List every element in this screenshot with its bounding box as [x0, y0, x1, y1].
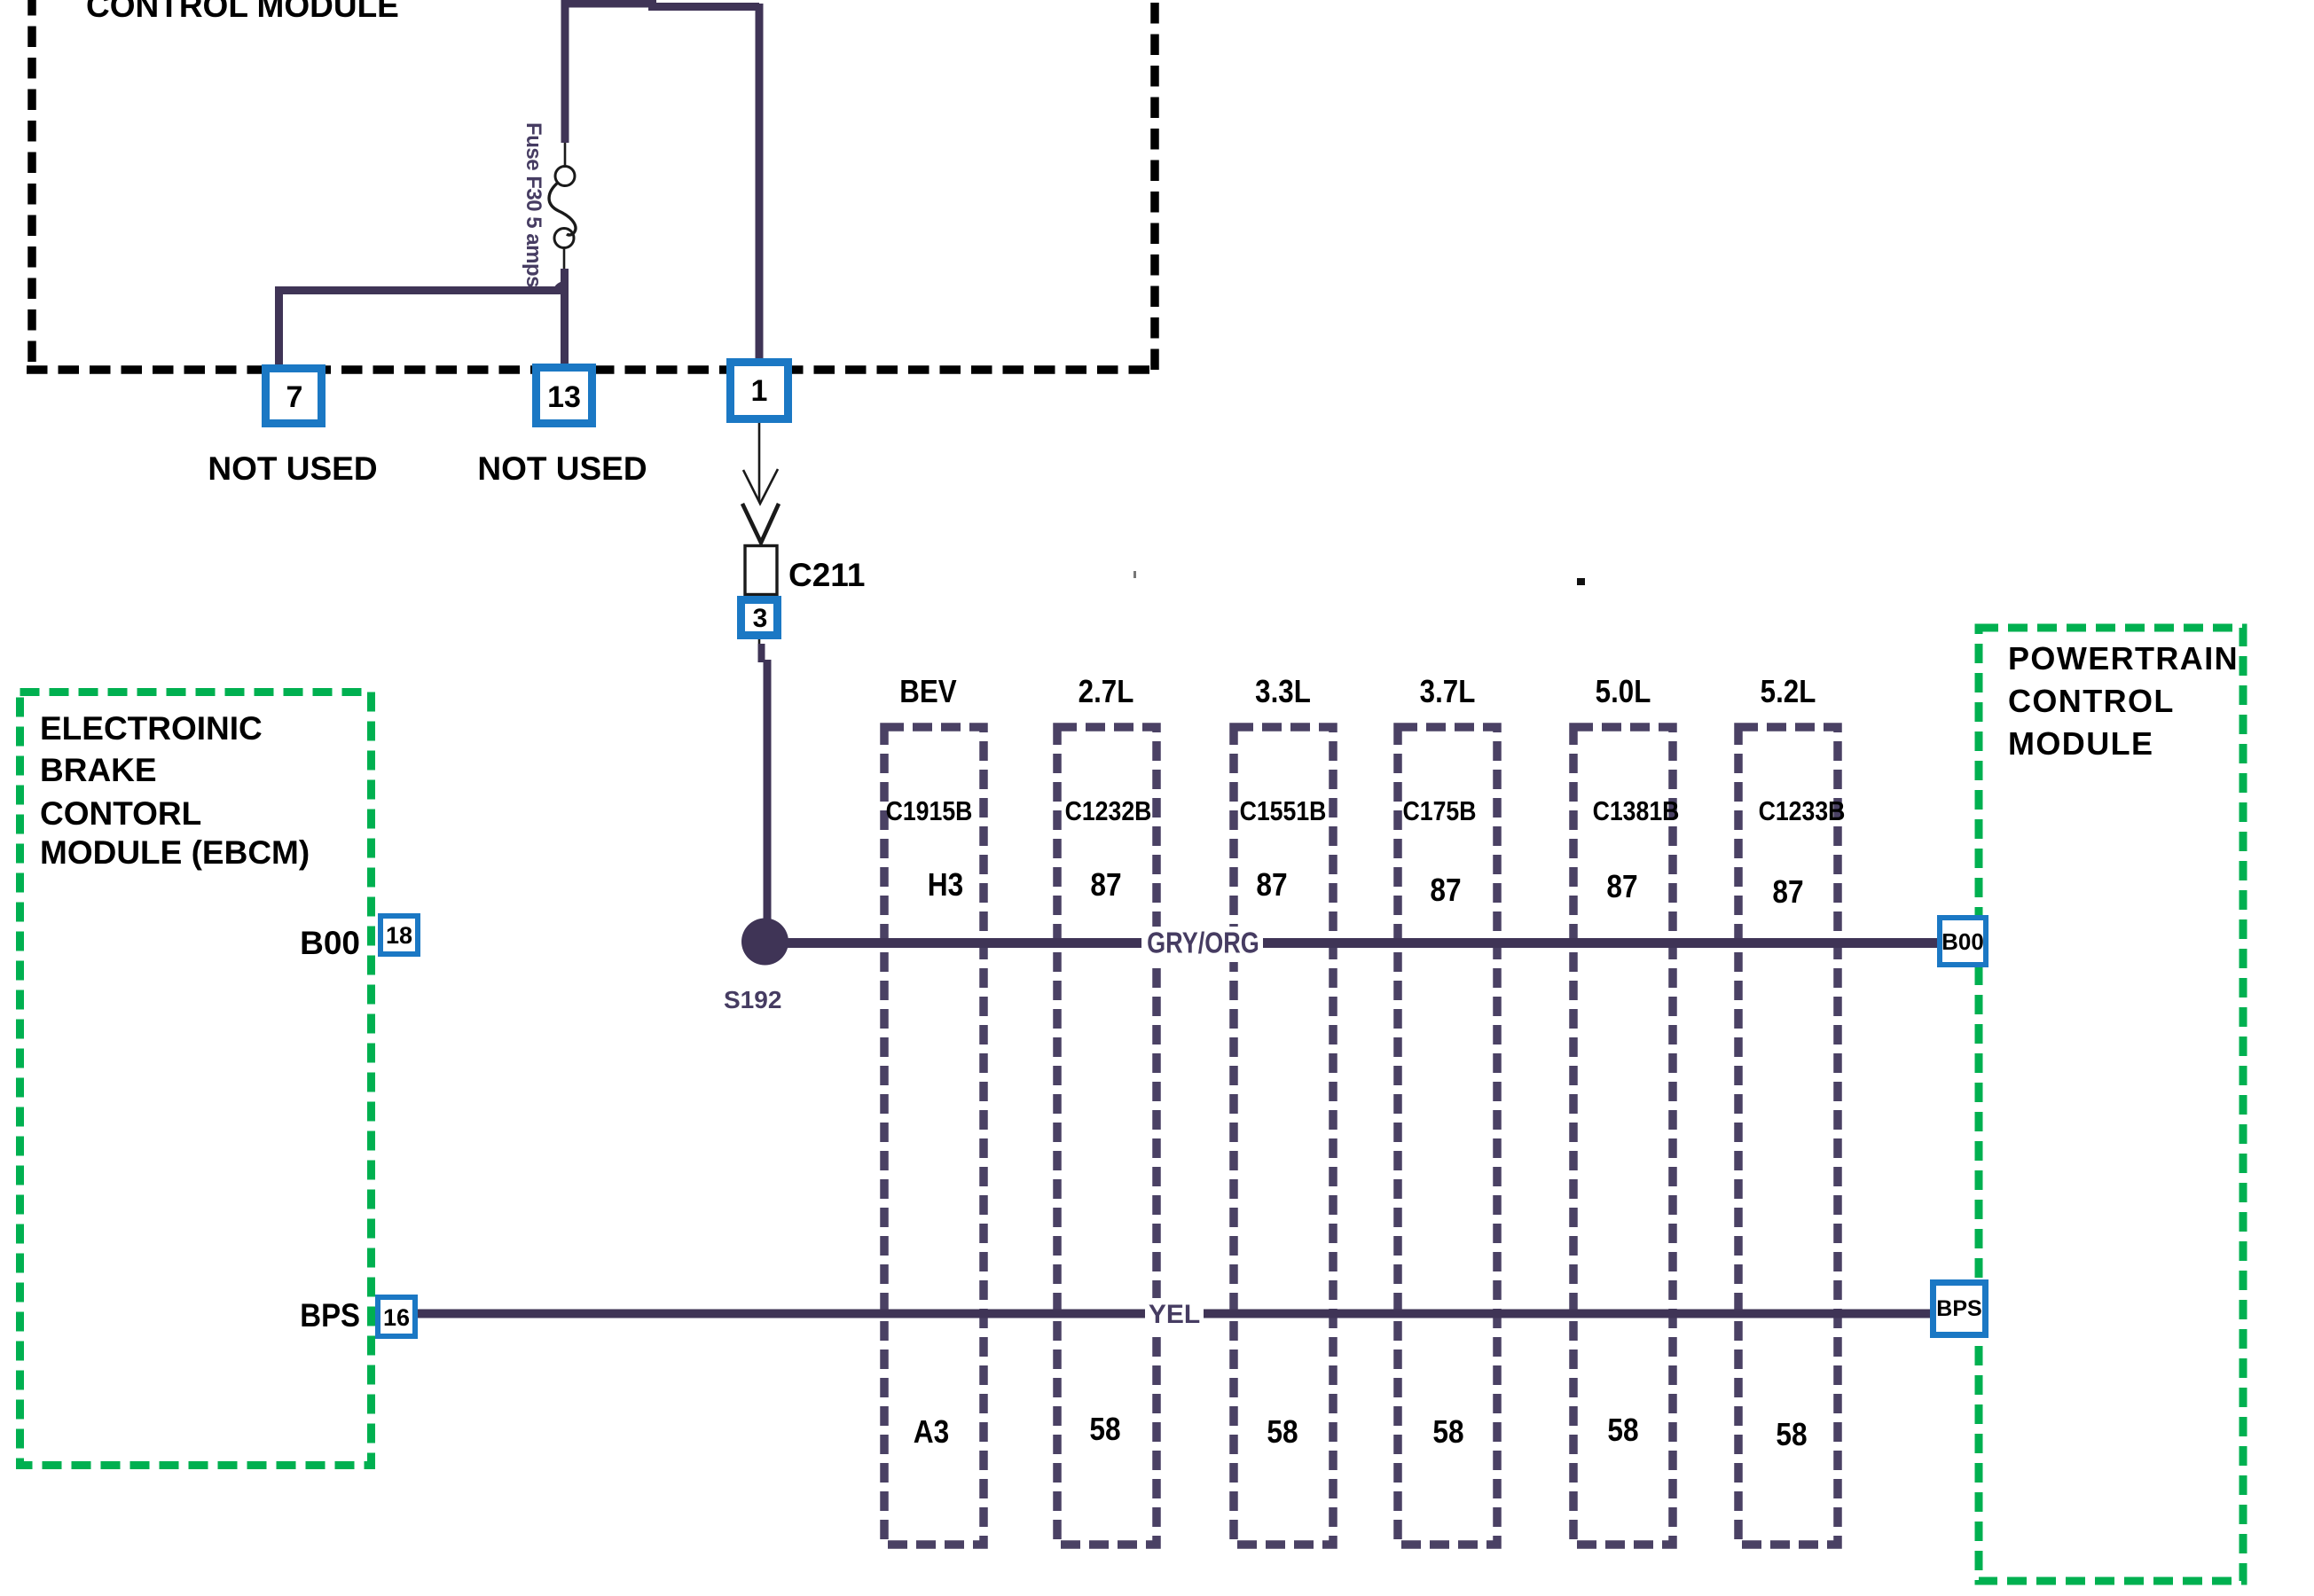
svg-text:58: 58 [1607, 1412, 1638, 1448]
engine variant column 3.7L (dashed) [1398, 727, 1497, 1545]
svg-text:C1915B: C1915B [886, 796, 973, 826]
svg-text:GRY/ORG: GRY/ORG [1147, 927, 1259, 959]
svg-text:ELECTROINIC: ELECTROINIC [40, 710, 263, 747]
svg-text:B00: B00 [1941, 928, 1984, 955]
engine variant column 5.0L (dashed) [1573, 727, 1673, 1545]
wire: YEL left segment [418, 1310, 1145, 1318]
module box: EBCM (green dashed) [20, 692, 372, 1466]
engine variant column 3.3L (dashed) [1234, 727, 1333, 1545]
pin box 7 [266, 369, 322, 424]
svg-text:NOT USED: NOT USED [208, 450, 377, 487]
wire: YEL right segment [1204, 1310, 1932, 1318]
svg-text:58: 58 [1432, 1414, 1463, 1450]
svg-text:CONTORL: CONTORL [40, 795, 201, 832]
svg-text:87: 87 [1256, 867, 1287, 903]
svg-text:POWERTRAIN: POWERTRAIN [2008, 640, 2239, 677]
connector C211 symbol [745, 546, 777, 595]
svg-text:3.3L: 3.3L [1255, 674, 1311, 710]
svg-text:NOT USED: NOT USED [477, 450, 647, 487]
label: ELECTROINIC BRAKE CONTORL MODULE (EBCM) [40, 710, 310, 871]
svg-text:CONTROL MODULE: CONTROL MODULE [86, 0, 399, 24]
stray mark 2 [1577, 578, 1585, 585]
svg-text:S192: S192 [724, 986, 781, 1013]
svg-text:5.0L: 5.0L [1596, 674, 1651, 710]
wire: vertical drop to pin 7 [275, 286, 283, 366]
wire: vertical down to S192 [764, 660, 772, 927]
svg-text:MODULE: MODULE [2008, 725, 2153, 762]
wire: top bus left segment [561, 0, 656, 8]
pin box 16 [378, 1297, 415, 1336]
wire: GRY/ORG right segment [1263, 938, 1939, 948]
svg-text:BPS: BPS [300, 1297, 360, 1334]
svg-text:C211: C211 [788, 557, 865, 593]
fuse F30 5 amps [549, 143, 576, 270]
arrowhead closed [742, 504, 779, 543]
svg-text:5.2L: 5.2L [1761, 674, 1816, 710]
engine variant column 5.2L (dashed) [1738, 727, 1838, 1545]
stray mark 1 [1133, 571, 1136, 578]
wire: top bus right segment [648, 3, 759, 11]
svg-text:58: 58 [1776, 1417, 1807, 1452]
pin box BPS (PCM) [1934, 1283, 1986, 1335]
svg-text:C1381B: C1381B [1593, 796, 1680, 826]
pin box 3 [741, 600, 778, 636]
wire: fuse feed vertical [561, 0, 569, 143]
pin box 1 [731, 363, 788, 419]
svg-text:58: 58 [1089, 1412, 1120, 1447]
svg-text:3: 3 [753, 604, 768, 633]
wire: vertical drop to pin 1 [756, 4, 764, 362]
svg-text:18: 18 [386, 922, 412, 949]
svg-text:A3: A3 [914, 1414, 949, 1450]
svg-text:CONTROL: CONTROL [2008, 683, 2175, 719]
svg-text:C1551B: C1551B [1240, 796, 1327, 826]
svg-text:13: 13 [547, 380, 581, 414]
svg-text:MODULE (EBCM): MODULE (EBCM) [40, 834, 310, 871]
svg-text:YEL: YEL [1149, 1300, 1200, 1329]
svg-text:2.7L: 2.7L [1079, 674, 1134, 710]
engine variant column BEV (dashed) [884, 727, 984, 1545]
wire: vertical drop to pin 13 [561, 293, 569, 366]
label backing GRY/ORG [1142, 927, 1263, 962]
svg-text:C175B: C175B [1403, 796, 1477, 826]
pin box 13 [537, 368, 592, 424]
wire: pin 1 lead to arrow [758, 423, 761, 502]
svg-text:87: 87 [1430, 872, 1461, 908]
module box: PCM (green dashed) [1979, 628, 2243, 1581]
svg-text:16: 16 [383, 1304, 410, 1331]
wire: horizontal run to pin 7 [275, 286, 569, 294]
wire: fuse output vertical [561, 269, 569, 293]
wire: GRY/ORG left segment [780, 938, 1141, 948]
svg-text:87: 87 [1090, 867, 1121, 903]
label backing YEL [1146, 1298, 1203, 1330]
junction hop at fuse output [553, 281, 565, 293]
pin box B00 (PCM) [1940, 918, 1986, 965]
svg-text:87: 87 [1606, 869, 1637, 904]
splice S192 [741, 919, 788, 966]
pin box 18 [380, 916, 418, 954]
svg-text:BEV: BEV [899, 674, 957, 710]
svg-text:BPS: BPS [1936, 1296, 1981, 1321]
wire: jog segment upper [758, 644, 765, 662]
svg-text:H3: H3 [928, 867, 963, 903]
module box: CONTROL MODULE (black dashed) [27, 0, 1155, 370]
svg-text:3.7L: 3.7L [1420, 674, 1476, 710]
svg-text:58: 58 [1267, 1414, 1298, 1450]
engine variant column 2.7L (dashed) [1057, 727, 1157, 1545]
svg-text:BRAKE: BRAKE [40, 752, 157, 788]
svg-text:C1232B: C1232B [1065, 796, 1152, 826]
svg-text:B00: B00 [300, 925, 360, 961]
svg-text:C1233B: C1233B [1759, 796, 1846, 826]
svg-text:Fuse F30 5 amps: Fuse F30 5 amps [522, 122, 545, 287]
wire: pin 3 lead [758, 639, 761, 660]
label: POWERTRAIN CONTROL MODULE [2008, 640, 2239, 762]
svg-text:7: 7 [286, 380, 303, 414]
svg-text:1: 1 [751, 374, 768, 408]
arrowhead open [743, 469, 778, 504]
svg-text:87: 87 [1772, 874, 1803, 910]
